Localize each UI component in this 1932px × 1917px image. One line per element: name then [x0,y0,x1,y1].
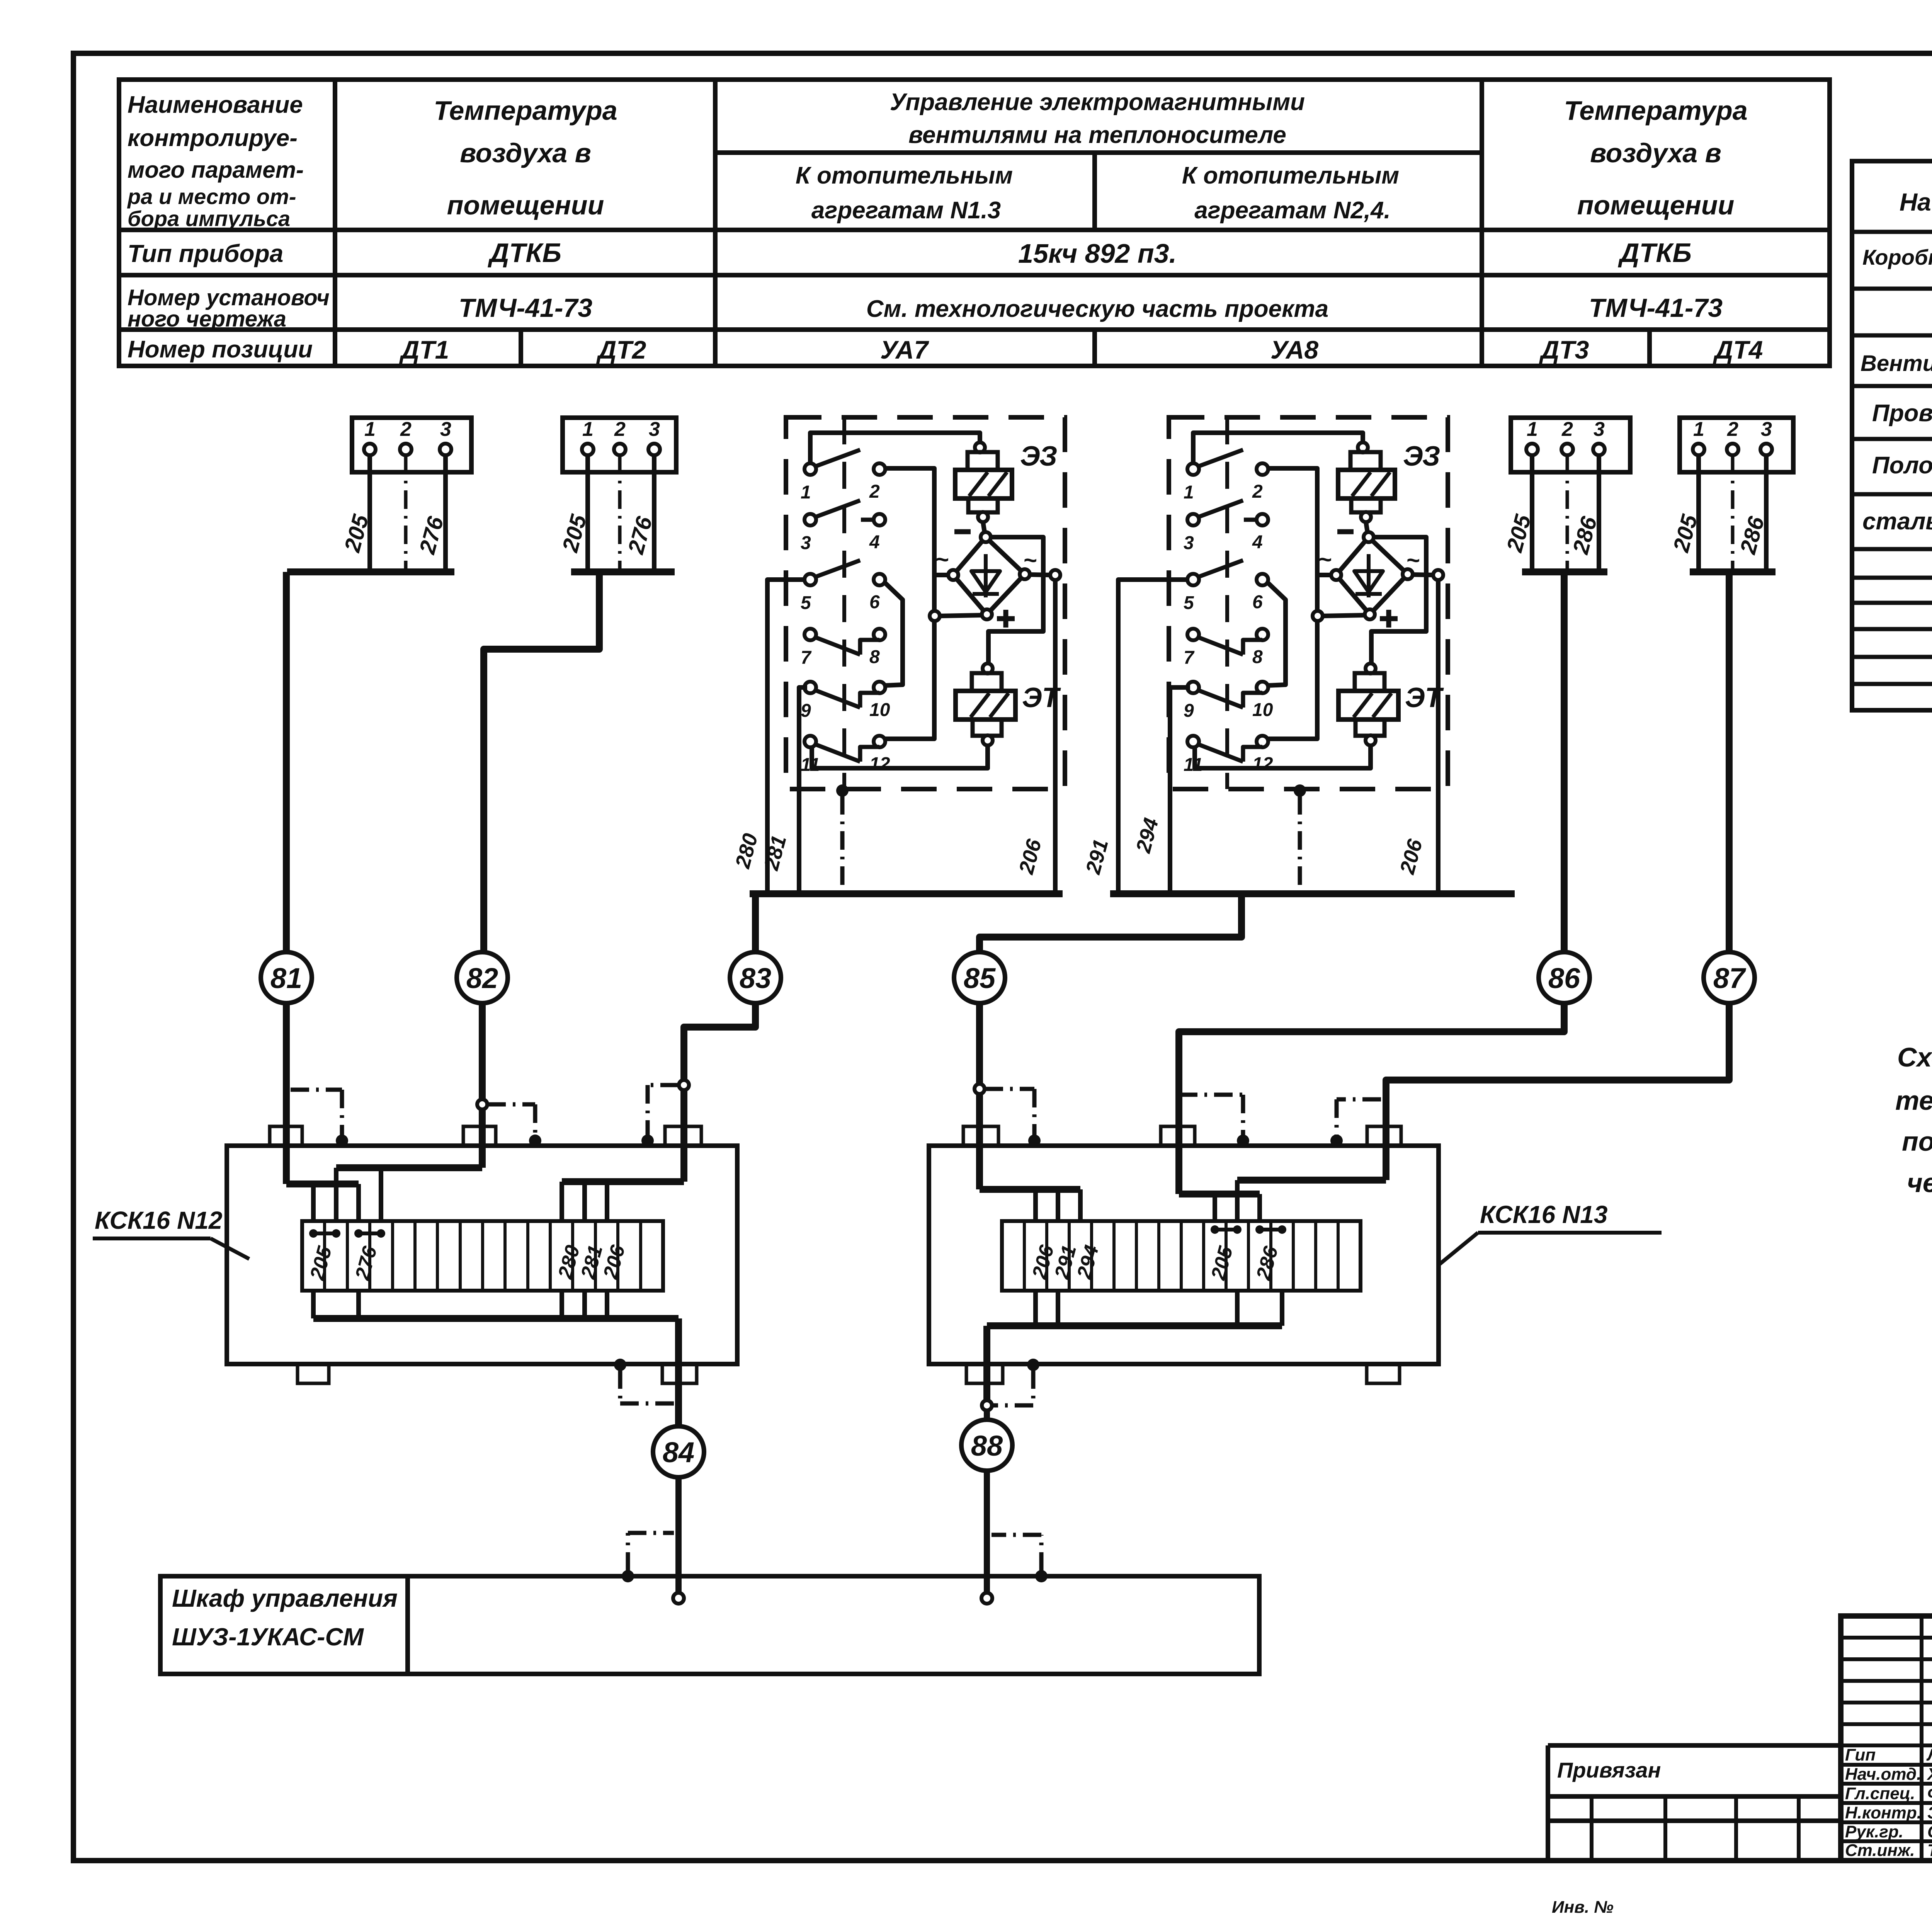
svg-text:ТМЧ-41-73: ТМЧ-41-73 [1589,293,1723,323]
title block signatures grid [1841,1616,1932,1861]
cable 81 shield jumper [291,1088,342,1092]
svg-text:Христофоров: Христофоров [1926,1765,1932,1784]
cable circle 88 [961,1420,1012,1471]
svg-text:Леонов: Леонов [1926,1745,1932,1764]
KCK12 wiring cable 83 to cells 280/281/206 [562,1178,684,1185]
svg-text:по эксплуатации УКАС-М,: по эксплуатации УКАС-М, [1902,1126,1932,1157]
terminal box DT4 (sensor, pins 1-3, wires 205/286) [1680,418,1793,472]
svg-text:Седых: Седых [1927,1822,1932,1841]
KCK13 wiring cable 86 to cells 205/286 [1179,1191,1260,1197]
svg-text:ТМЧ-41-73: ТМЧ-41-73 [459,293,592,323]
svg-text:ШУЗ-1УКАС-СМ: ШУЗ-1УКАС-СМ [172,1623,364,1651]
cable 84 wire lower [675,1477,682,1593]
svg-text:помещении: помещении [1577,190,1735,220]
svg-text:86: 86 [1548,962,1580,994]
junction box KCK16 N12 body [227,1146,737,1364]
svg-text:Вентиль запорный: Вентиль запорный [1861,351,1932,376]
svg-text:стальная: стальная [1862,508,1932,535]
svg-text:Шкаф управления: Шкаф управления [172,1584,398,1612]
wire 291 (contact5 of UA8 to cable bus) [1118,580,1189,894]
KCK13 wiring cable 85 to cells 206/291/294 [980,1186,1080,1193]
cable circle 81 [261,952,312,1003]
svg-text:См. технологическую часть прое: См. технологическую часть проекта [866,296,1328,322]
svg-text:ДТ2: ДТ2 [596,335,646,364]
svg-text:Золотарево: Золотарево [1927,1803,1932,1822]
KCK13 terminal strip [1002,1221,1361,1291]
svg-text:81: 81 [270,962,302,994]
cable 88 wire lower [984,1471,990,1593]
cable 85 lower wire [976,1003,983,1084]
cable circle 83 [730,952,781,1003]
svg-text:мого парамет-: мого парамет- [128,157,304,183]
svg-text:1: 1 [582,418,594,441]
svg-text:Н.контр.: Н.контр. [1845,1803,1922,1822]
KCK12 top gland 3 [665,1126,701,1146]
cable 83 lower wire [684,1003,755,1080]
control cabinet box [160,1576,1259,1674]
svg-text:воздуха в: воздуха в [460,138,591,168]
svg-text:1: 1 [1527,418,1538,441]
svg-text:агрегатам N1.3: агрегатам N1.3 [811,197,1001,224]
svg-text:Схема выполнена на основании: Схема выполнена на основании [1897,1042,1932,1072]
thermostat box UA8 (contacts 1-12, relays EZ/ET, bridge) [1169,417,1448,789]
svg-text:Таболина: Таболина [1927,1841,1932,1860]
svg-text:ДТ1: ДТ1 [399,335,449,364]
svg-text:КСК16 N13: КСК16 N13 [1480,1201,1607,1228]
KCK12 jumper 205-2 [309,1229,318,1238]
KCK13 top gland 3 [1367,1126,1401,1146]
svg-text:Тип прибора: Тип прибора [128,240,283,267]
svg-text:ДТКБ: ДТКБ [1618,238,1692,268]
svg-text:Рук.гр.: Рук.гр. [1845,1822,1903,1841]
svg-text:К отопительным: К отопительным [1182,162,1399,189]
svg-text:1: 1 [364,418,376,441]
cable circle 87 [1704,952,1755,1003]
svg-text:Гип: Гип [1845,1745,1876,1764]
svg-text:контролируе-: контролируе- [128,125,298,151]
KCK12 wiring cable 82 to cells [336,1164,482,1171]
svg-text:Фукс: Фукс [1927,1784,1932,1803]
svg-text:агрегатам N2,4.: агрегатам N2,4. [1194,197,1391,224]
KCK12 top gland 2 [463,1126,496,1146]
cable 84 terminal in cabinet [673,1593,684,1604]
cable 86 lower wire [1179,1003,1564,1194]
shield dash-dot of UA8 [1294,784,1306,797]
svg-text:УА8: УА8 [1270,335,1318,364]
cable 81 lower wire [283,1003,290,1184]
svg-text:Номер позиции: Номер позиции [128,336,313,363]
svg-text:Инв. №: Инв. № [1552,1898,1614,1917]
cable 84 shield jumper upper [614,1359,626,1371]
svg-text:85: 85 [964,962,996,994]
privyazan table [1548,1743,1841,1748]
cable 87 shield jumper [1337,1097,1381,1102]
svg-text:Нач.отд.: Нач.отд. [1845,1765,1921,1784]
cable 82 lower wire [479,1003,486,1099]
svg-text:ДТ3: ДТ3 [1539,335,1589,364]
svg-text:Полоса: Полоса [1872,452,1932,479]
cable 87 wire [1726,572,1733,952]
svg-text:КСК16 N12: КСК16 N12 [95,1206,222,1234]
cable 88 wire upper [983,1326,990,1400]
terminal box DT2 (sensor, pins 1-3, wires 205/276) [563,418,676,472]
svg-text:3: 3 [1761,418,1772,441]
svg-text:ДТ4: ДТ4 [1713,335,1763,364]
cable 86 shield jumper [1179,1093,1243,1097]
cable 88 wire mid [984,1411,990,1420]
wire 280 (contact5 of UA7 to cable bus) [767,580,806,894]
cable circle 82 [457,952,508,1003]
cable 87 lower wire [1386,1003,1729,1180]
wire 206 (UA7 right terminal to cable bus) [1053,580,1058,894]
KCK13 jumper 205-11 [1211,1225,1219,1234]
cable 88 shield jumper lower [1035,1570,1048,1582]
svg-text:88: 88 [971,1430,1003,1462]
svg-text:84: 84 [663,1436,694,1468]
svg-text:К отопительным: К отопительным [796,162,1013,189]
cable circle 84 [653,1426,704,1477]
svg-text:3: 3 [649,418,660,441]
cable 88 shield jumper upper [1027,1359,1039,1371]
svg-text:воздуха в: воздуха в [1590,138,1721,168]
cable 84 shield jumper lower [622,1570,634,1582]
svg-text:ра и место от-: ра и место от- [127,184,296,209]
cable 88 terminal in cabinet [981,1593,992,1604]
wire 281 (contact9 of UA7 to cable bus) [799,687,807,894]
KCK12 terminal strip [302,1221,663,1291]
KCK12 wiring cable 81 to cells 205/276 [286,1180,359,1187]
shield dash-dot of UA7 [836,784,849,797]
KCK13 bottom gland 1 [966,1364,1003,1383]
svg-text:Привязан: Привязан [1557,1758,1661,1782]
cable 81 wire [283,572,290,952]
cable 84 wire upper [675,1318,682,1426]
svg-text:черт. N ЖБИК. 656451.033.ЭЗ.: черт. N ЖБИК. 656451.033.ЭЗ. [1907,1168,1932,1198]
cable 82 wire [484,572,599,952]
thermostat box UA7 (contacts 1-12, relays EZ/ET, bridge) [786,417,1065,789]
cable 85 wire [980,894,1242,952]
KCK12 bottom gland 1 [298,1364,329,1383]
KCK13 bottom collector to cable 88 [1033,1291,1038,1326]
svg-text:технического описания и инстру: технического описания и инструкции [1895,1085,1932,1116]
svg-text:2: 2 [614,418,626,441]
svg-text:вентилями на теплоносителе: вентилями на теплоносителе [908,122,1286,148]
svg-text:Наименование: Наименование [128,92,303,118]
svg-text:87: 87 [1713,962,1747,994]
KCK13 jumper 286-13 [1255,1225,1264,1234]
cable circle 85 [954,952,1005,1003]
svg-text:15кч 892 п3.: 15кч 892 п3. [1018,238,1177,269]
junction box KCK16 N13 body [929,1146,1439,1364]
svg-text:Температура: Температура [1564,95,1747,126]
svg-text:бора импульса: бора импульса [128,206,290,231]
svg-text:83: 83 [740,962,771,994]
svg-text:Проводник: Проводник [1872,400,1932,427]
svg-text:Управление электромагнитными: Управление электромагнитными [890,89,1305,116]
svg-text:2: 2 [1727,418,1738,441]
svg-text:Ст.инж.: Ст.инж. [1845,1841,1915,1860]
terminal box DT3 (sensor, pins 1-3, wires 205/286) [1511,418,1630,472]
wire 294 (contact9 of UA8 to cable bus) [1170,687,1190,894]
KCK13 top gland 1 [963,1126,998,1146]
svg-text:УА7: УА7 [880,335,929,364]
cable 82 shield jumper [487,1102,535,1107]
KCK12 bottom collector to cable 84 [311,1291,316,1318]
svg-text:2: 2 [1561,418,1573,441]
spec table frame [1852,161,1932,710]
svg-text:Наименование: Наименование [1900,188,1932,216]
KCK12 top gland 1 [270,1126,302,1146]
cable 85 shield jumper [985,1087,1034,1091]
svg-text:Гл.спец.: Гл.спец. [1845,1784,1915,1803]
wire 206 (UA8 right terminal to cable bus) [1436,580,1440,894]
svg-text:помещении: помещении [447,190,604,220]
svg-text:3: 3 [440,418,451,441]
cable bus of UA8 [1110,890,1515,897]
KCK13 wiring cable 87 to cell 11 [1237,1177,1386,1184]
KCK13 bottom gland 2 [1367,1364,1400,1383]
svg-text:1: 1 [1693,418,1704,441]
KCK12 jumper 276-4 [354,1229,363,1238]
svg-text:2: 2 [400,418,412,441]
cable 83 shield jumper [648,1083,679,1087]
cable 88 terminal circle [982,1400,992,1410]
KCK13 top gland 2 [1161,1126,1195,1146]
cable circle 86 [1539,952,1590,1003]
table: parameter table frame [119,80,1830,366]
svg-text:ного чертежа: ного чертежа [128,306,286,332]
cable bus of UA7 [750,890,1063,897]
svg-text:Температура: Температура [434,95,617,126]
cable 83 wire [752,894,759,952]
svg-text:3: 3 [1594,418,1605,441]
svg-text:ДТКБ: ДТКБ [488,238,561,268]
cabinet label divider [405,1576,410,1674]
KCK12 bottom gland 2 [662,1364,697,1383]
svg-text:Коробка соедини-: Коробка соедини- [1862,245,1932,269]
svg-text:82: 82 [466,962,498,994]
cable 86 wire [1561,572,1568,952]
terminal box DT1 (sensor, pins 1-3, wires 205/276) [352,418,471,472]
